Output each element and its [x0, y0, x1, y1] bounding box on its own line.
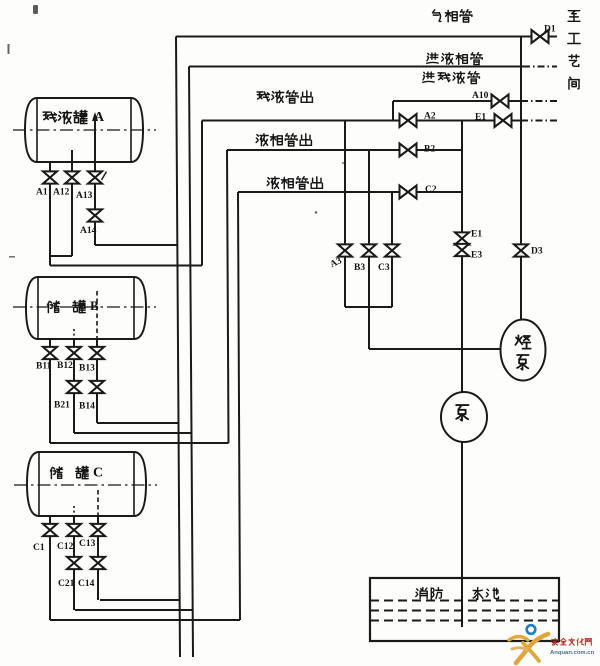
- svg-text:Anquan.com.cn: Anquan.com.cn: [550, 650, 595, 656]
- svg-text:B11: B11: [36, 361, 52, 371]
- svg-text:C14: C14: [78, 579, 95, 589]
- svg-text:C: C: [93, 466, 103, 481]
- svg-text:C2: C2: [425, 185, 437, 195]
- svg-text:C3: C3: [378, 263, 390, 273]
- svg-text:C21: C21: [58, 579, 75, 589]
- svg-text:B14: B14: [79, 401, 95, 411]
- svg-text:D1: D1: [544, 24, 556, 34]
- svg-text:E1: E1: [471, 229, 482, 239]
- svg-text:C13: C13: [79, 539, 96, 549]
- svg-text:A1: A1: [36, 187, 48, 197]
- svg-text:A10: A10: [472, 91, 489, 101]
- svg-text:A2: A2: [424, 111, 436, 121]
- svg-text:C12: C12: [57, 542, 74, 552]
- svg-text:E1: E1: [475, 112, 486, 122]
- svg-text:B13: B13: [79, 363, 95, 373]
- svg-text:A13: A13: [76, 191, 93, 201]
- svg-text:B21: B21: [54, 400, 70, 410]
- svg-text:B12: B12: [57, 361, 73, 371]
- svg-text:A12: A12: [53, 187, 70, 197]
- svg-text:C1: C1: [33, 543, 45, 553]
- svg-text:A14: A14: [80, 226, 97, 236]
- svg-text:D3: D3: [531, 246, 543, 256]
- svg-text:B3: B3: [354, 263, 365, 273]
- svg-text:B2: B2: [424, 144, 435, 154]
- svg-text:E3: E3: [471, 250, 482, 260]
